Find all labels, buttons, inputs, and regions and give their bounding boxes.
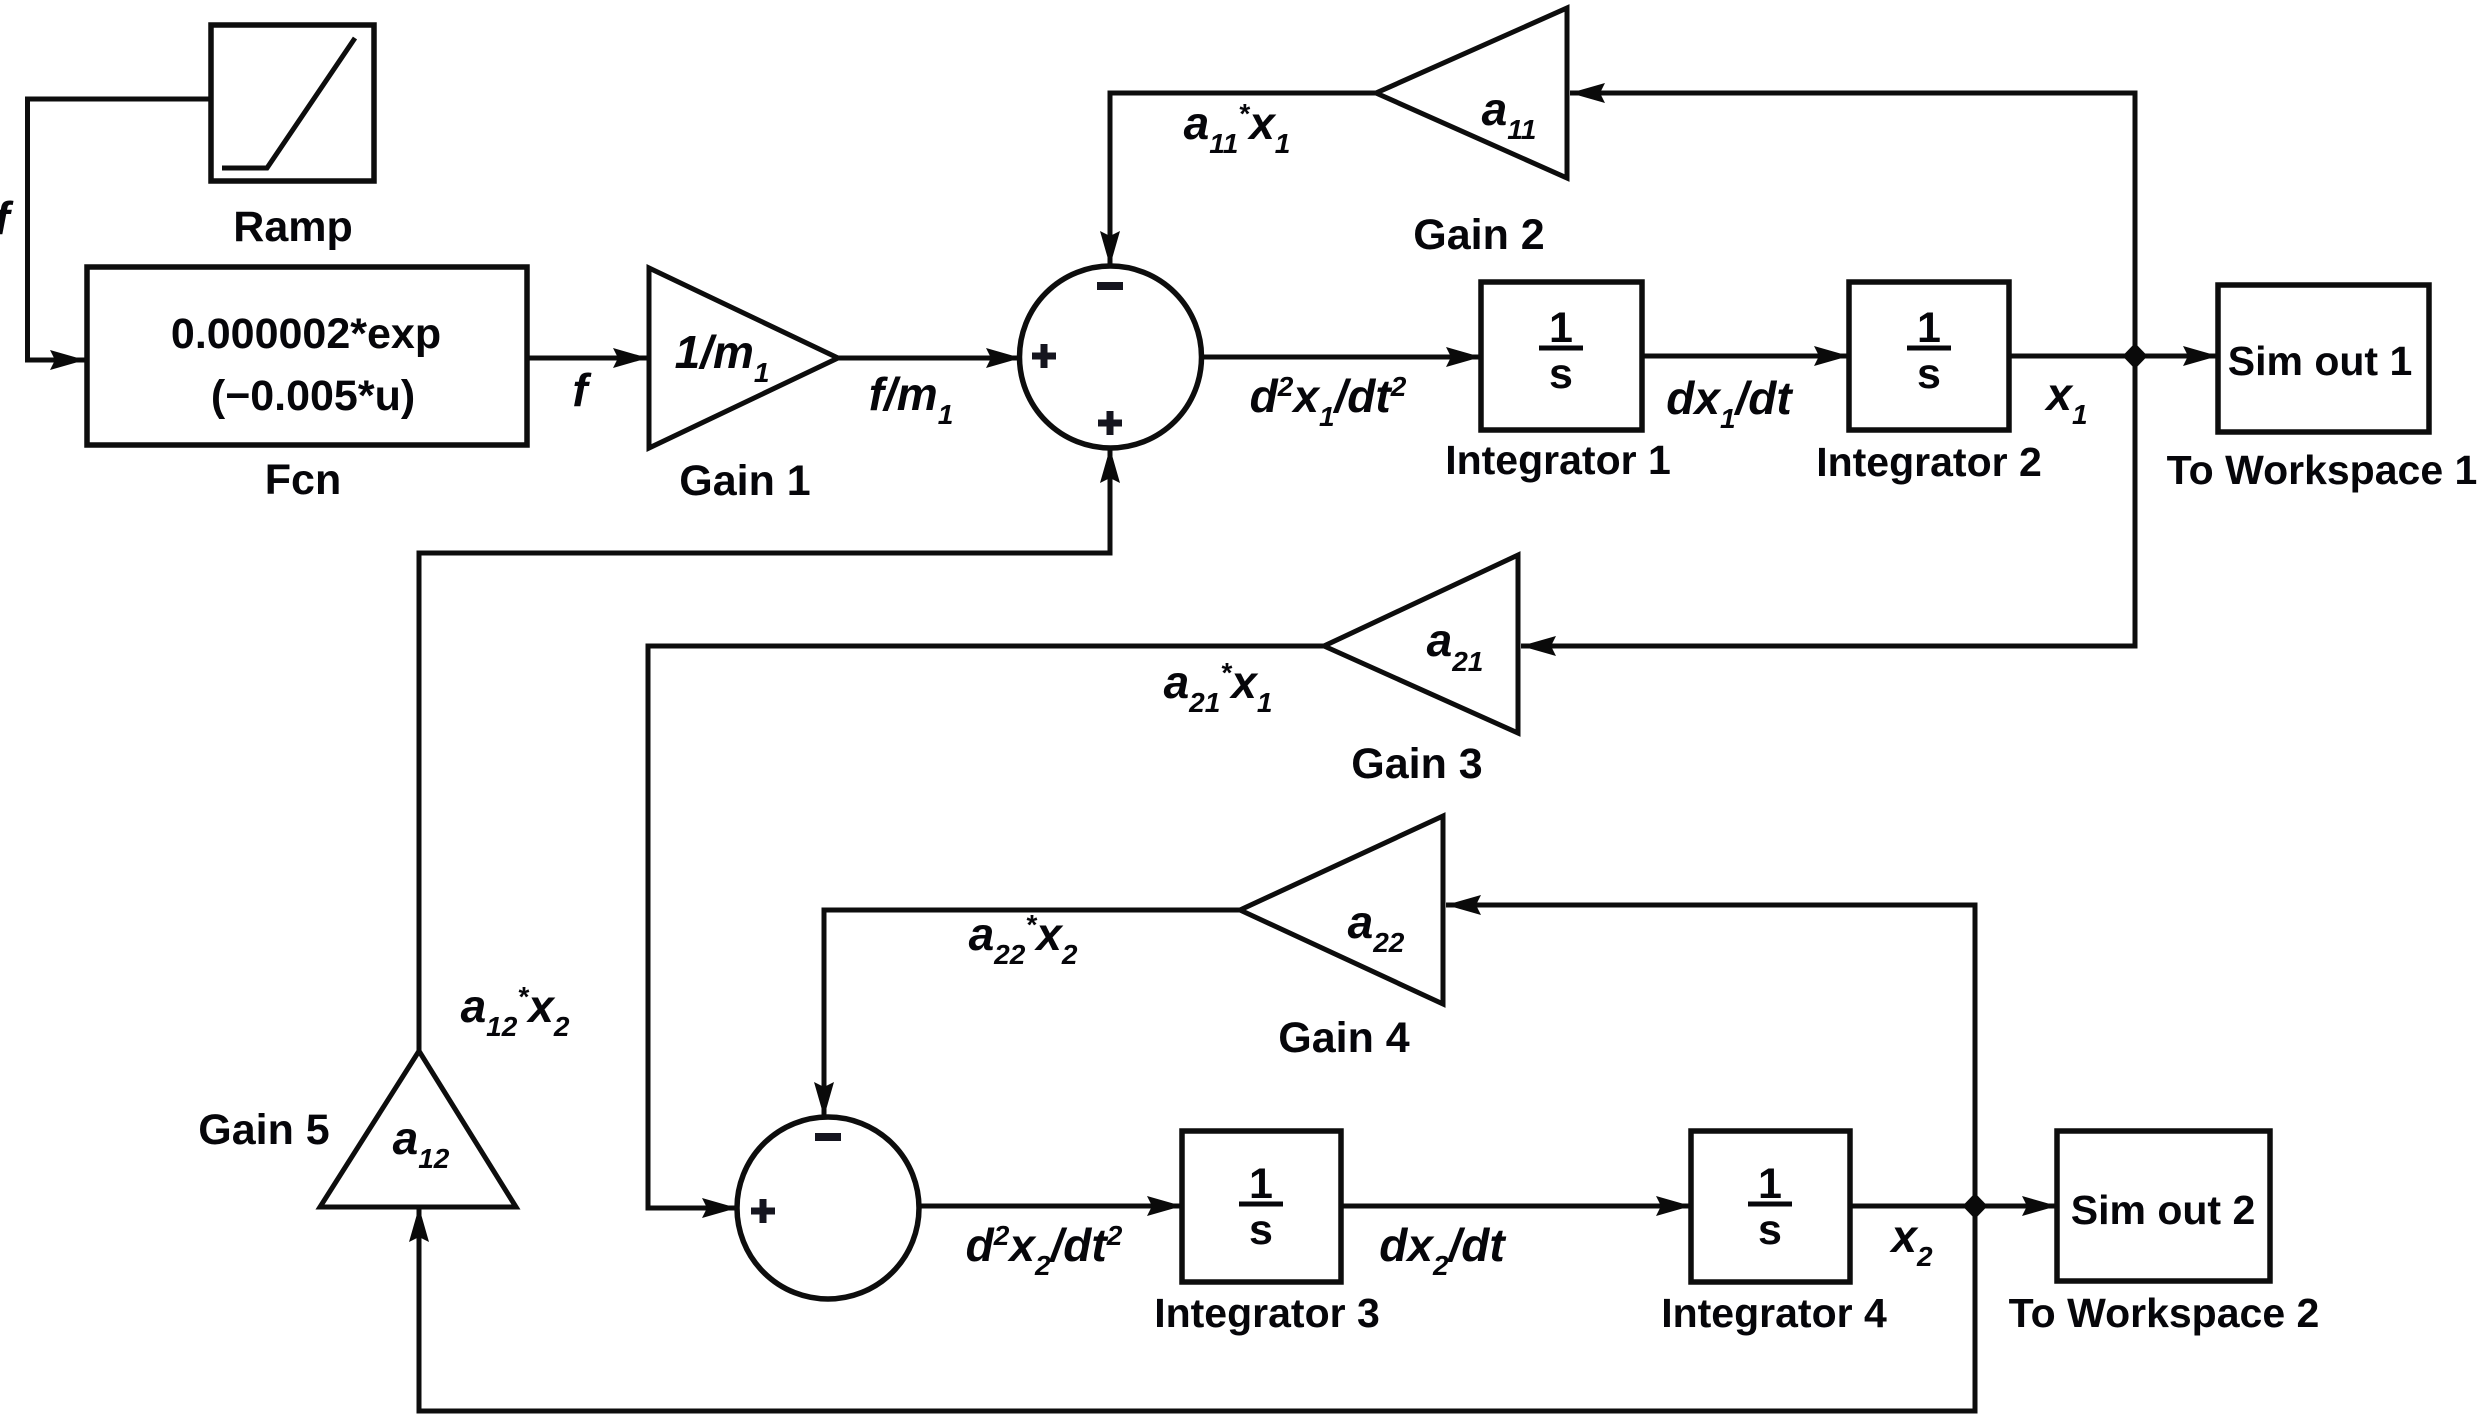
svg-text:Gain 5: Gain 5 — [198, 1106, 329, 1154]
svg-text:s: s — [1249, 1206, 1273, 1254]
svg-text:a12*x2: a12*x2 — [461, 980, 570, 1042]
svg-text:x1: x1 — [2043, 368, 2087, 430]
svg-text:Integrator 4: Integrator 4 — [1661, 1290, 1887, 1336]
svg-text:1: 1 — [1917, 304, 1941, 352]
svg-text:Gain 3: Gain 3 — [1351, 740, 1482, 788]
svg-text:s: s — [1917, 350, 1941, 398]
svg-text:f: f — [572, 364, 592, 416]
svg-text:Integrator 1: Integrator 1 — [1445, 437, 1671, 483]
svg-text:a11*x1: a11*x1 — [1184, 97, 1291, 159]
svg-text:s: s — [1549, 350, 1573, 398]
svg-text:To Workspace 2: To Workspace 2 — [2009, 1290, 2320, 1336]
svg-text:Gain 4: Gain 4 — [1278, 1014, 1410, 1062]
svg-text:Gain 1: Gain 1 — [679, 457, 810, 505]
svg-text:(−0.005*u): (−0.005*u) — [211, 372, 415, 420]
svg-text:1: 1 — [1549, 304, 1573, 352]
svg-text:1: 1 — [1758, 1160, 1782, 1208]
svg-text:Fcn: Fcn — [265, 456, 341, 504]
svg-text:Gain 2: Gain 2 — [1413, 211, 1544, 259]
svg-text:dx2/dt: dx2/dt — [1379, 1219, 1506, 1281]
svg-text:Sim out 1: Sim out 1 — [2228, 338, 2413, 384]
svg-text:Integrator 2: Integrator 2 — [1816, 439, 2042, 485]
svg-text:Sim out 2: Sim out 2 — [2071, 1187, 2256, 1233]
svg-text:Ramp: Ramp — [233, 203, 352, 251]
svg-text:d2x1/dt2: d2x1/dt2 — [1250, 370, 1407, 432]
svg-text:d2x2/dt2: d2x2/dt2 — [966, 1219, 1123, 1281]
svg-text:To Workspace 1: To Workspace 1 — [2167, 447, 2478, 493]
svg-text:a21*x1: a21*x1 — [1164, 656, 1273, 718]
svg-text:dx1/dt: dx1/dt — [1666, 372, 1793, 434]
svg-text:f: f — [0, 192, 14, 244]
svg-text:a22*x2: a22*x2 — [969, 908, 1078, 970]
svg-text:1: 1 — [1249, 1160, 1273, 1208]
svg-text:x2: x2 — [1888, 1210, 1933, 1272]
svg-text:Integrator 3: Integrator 3 — [1154, 1290, 1380, 1336]
svg-text:f/m1: f/m1 — [869, 368, 954, 430]
svg-text:0.000002*exp: 0.000002*exp — [171, 310, 441, 358]
svg-text:s: s — [1758, 1206, 1782, 1254]
